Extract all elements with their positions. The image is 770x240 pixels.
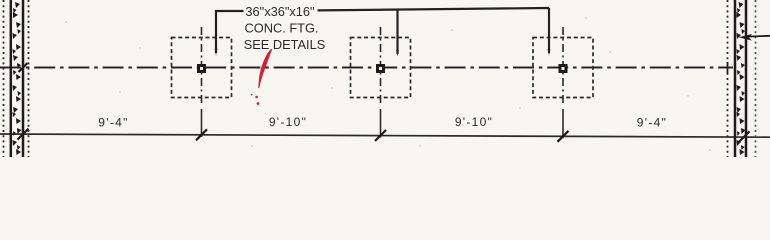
svg-text:SEE DETAILS: SEE DETAILS [244,37,326,52]
svg-text:9'-4": 9'-4" [98,116,128,130]
svg-text:36"x36"x16": 36"x36"x16" [245,4,314,19]
svg-text:9'-10": 9'-10" [455,115,493,129]
svg-text:CONC. FTG.: CONC. FTG. [245,21,319,36]
svg-text:9'-10": 9'-10" [269,115,307,129]
svg-text:9'-4": 9'-4" [637,116,667,130]
